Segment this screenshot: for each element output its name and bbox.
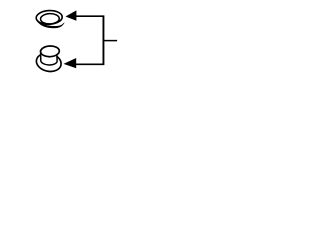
grommet barrel right side	[56, 54, 58, 61]
grommet barrel left side	[40, 50, 42, 61]
washer bottom-rim thickness swoosh	[37, 21, 64, 28]
washer inner hole arc	[40, 13, 59, 24]
grommet barrel base arc	[41, 61, 57, 65]
bottom arrowhead	[64, 58, 77, 68]
leader bottom segment	[76, 63, 103, 65]
grommet cap ellipse	[40, 46, 59, 58]
leader vertical segment	[102, 15, 104, 65]
grommet flange ellipse	[35, 51, 63, 74]
leader top segment	[76, 15, 103, 17]
leader stub	[103, 40, 117, 42]
washer outer ellipse	[36, 10, 63, 25]
grommet barrel body mask	[41, 50, 58, 65]
top arrowhead	[66, 10, 77, 20]
